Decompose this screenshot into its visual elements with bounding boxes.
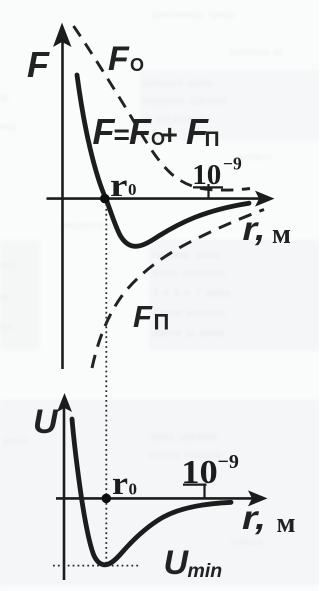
svg-text:10: 10 bbox=[192, 159, 221, 191]
label 10^-9 (bottom plot) bbox=[181, 451, 239, 491]
svg-text:+: + bbox=[162, 119, 178, 150]
axis F (vertical axis of top plot) bbox=[61, 40, 64, 369]
label r0 (top plot) bbox=[110, 168, 137, 204]
svg-text:r,: r, bbox=[243, 210, 266, 247]
curve F=Fo+Fп (solid resultant force curve) bbox=[77, 75, 249, 246]
svg-text:3.4.5.6.7 шиш: 3.4.5.6.7 шиш bbox=[152, 287, 232, 299]
svg-text:O: O bbox=[130, 55, 144, 75]
label Umin bbox=[164, 544, 223, 582]
tick mark (top plot) bbox=[207, 184, 209, 198]
label 10^-9 (top plot) bbox=[192, 154, 242, 192]
svg-text:П: П bbox=[205, 128, 220, 151]
svg-text:шишшл шиш: шишшл шиш bbox=[142, 77, 214, 89]
svg-text:ш: ш bbox=[0, 91, 9, 103]
svg-text:F: F bbox=[129, 111, 152, 152]
label r, м (top plot) bbox=[243, 210, 292, 250]
arrowhead of U axis bbox=[57, 393, 72, 412]
svg-text:шилиииш шиш: шилиииш шиш bbox=[152, 9, 235, 21]
label F=Fo+Fп bbox=[93, 111, 220, 152]
svg-text:F: F bbox=[27, 44, 50, 85]
svg-text:м: м bbox=[272, 218, 291, 250]
svg-text:U: U bbox=[164, 544, 190, 582]
svg-text:ил: ил bbox=[0, 321, 14, 333]
svg-text:−9: −9 bbox=[218, 451, 239, 473]
label r, м (bottom plot) bbox=[242, 499, 296, 539]
svg-text:F: F bbox=[108, 40, 130, 78]
svg-text:шиш: шиш bbox=[2, 435, 28, 447]
svg-text:лишние шилии: лишние шилии bbox=[142, 95, 227, 107]
tick mark (bottom plot) bbox=[203, 485, 205, 498]
svg-text:шлиııı: шлиııı bbox=[238, 151, 273, 163]
arrowhead of r axis (bottom plot) bbox=[248, 490, 268, 506]
svg-text:F: F bbox=[133, 299, 153, 334]
svg-text:F: F bbox=[93, 111, 116, 152]
curve U (potential energy curve) bbox=[72, 419, 231, 565]
svg-text:0: 0 bbox=[129, 480, 138, 499]
svg-text:0: 0 bbox=[128, 180, 137, 199]
svg-text:лишили ш: лишили ш bbox=[60, 219, 118, 231]
svg-text:шллиш ш: шллиш ш bbox=[230, 46, 283, 58]
svg-text:иш: иш bbox=[0, 259, 16, 271]
underline of 10^-9 (top plot) bbox=[193, 186, 223, 188]
svg-text:шиш лишили: шиш лишили bbox=[152, 267, 226, 279]
axis r (horizontal axis of bottom plot) bbox=[56, 497, 252, 500]
underline of 10^-9 (bottom plot) bbox=[183, 484, 207, 486]
axis r (horizontal axis of top plot) bbox=[47, 197, 260, 200]
label Fo bbox=[108, 40, 144, 78]
svg-text:−9: −9 bbox=[223, 154, 242, 174]
curve Fп (dashed attractive force curve) bbox=[92, 210, 264, 369]
svg-text:r,: r, bbox=[242, 499, 266, 536]
svg-text:U: U bbox=[33, 403, 59, 441]
node r0 (dot on axis, bottom plot) bbox=[102, 494, 112, 504]
arrowhead of r axis (top plot) bbox=[255, 191, 275, 207]
label Fп bbox=[133, 299, 169, 335]
svg-text:шиш шилли: шиш шилли bbox=[150, 431, 217, 443]
arrowhead of F axis bbox=[53, 23, 72, 48]
node r0 (dot on axis, top plot) bbox=[100, 194, 110, 204]
svg-text:иш: иш bbox=[0, 121, 16, 133]
dotted vertical guide line at r0 bbox=[105, 204, 107, 563]
svg-text:м: м bbox=[277, 507, 296, 539]
svg-text:min: min bbox=[188, 560, 223, 582]
svg-text:шиши: шиши bbox=[232, 536, 265, 548]
svg-text:r: r bbox=[112, 466, 128, 502]
dotted horizontal guide line at Umin bbox=[53, 565, 139, 567]
svg-text:ш: ш bbox=[0, 291, 9, 303]
label r0 (bottom plot) bbox=[112, 466, 137, 502]
axis U (vertical axis of bottom plot) bbox=[63, 408, 66, 580]
svg-text:r: r bbox=[110, 168, 128, 204]
svg-text:П: П bbox=[154, 310, 170, 335]
svg-text:=: = bbox=[114, 119, 130, 150]
curve Fo (dashed repulsive force curve) bbox=[74, 26, 251, 190]
